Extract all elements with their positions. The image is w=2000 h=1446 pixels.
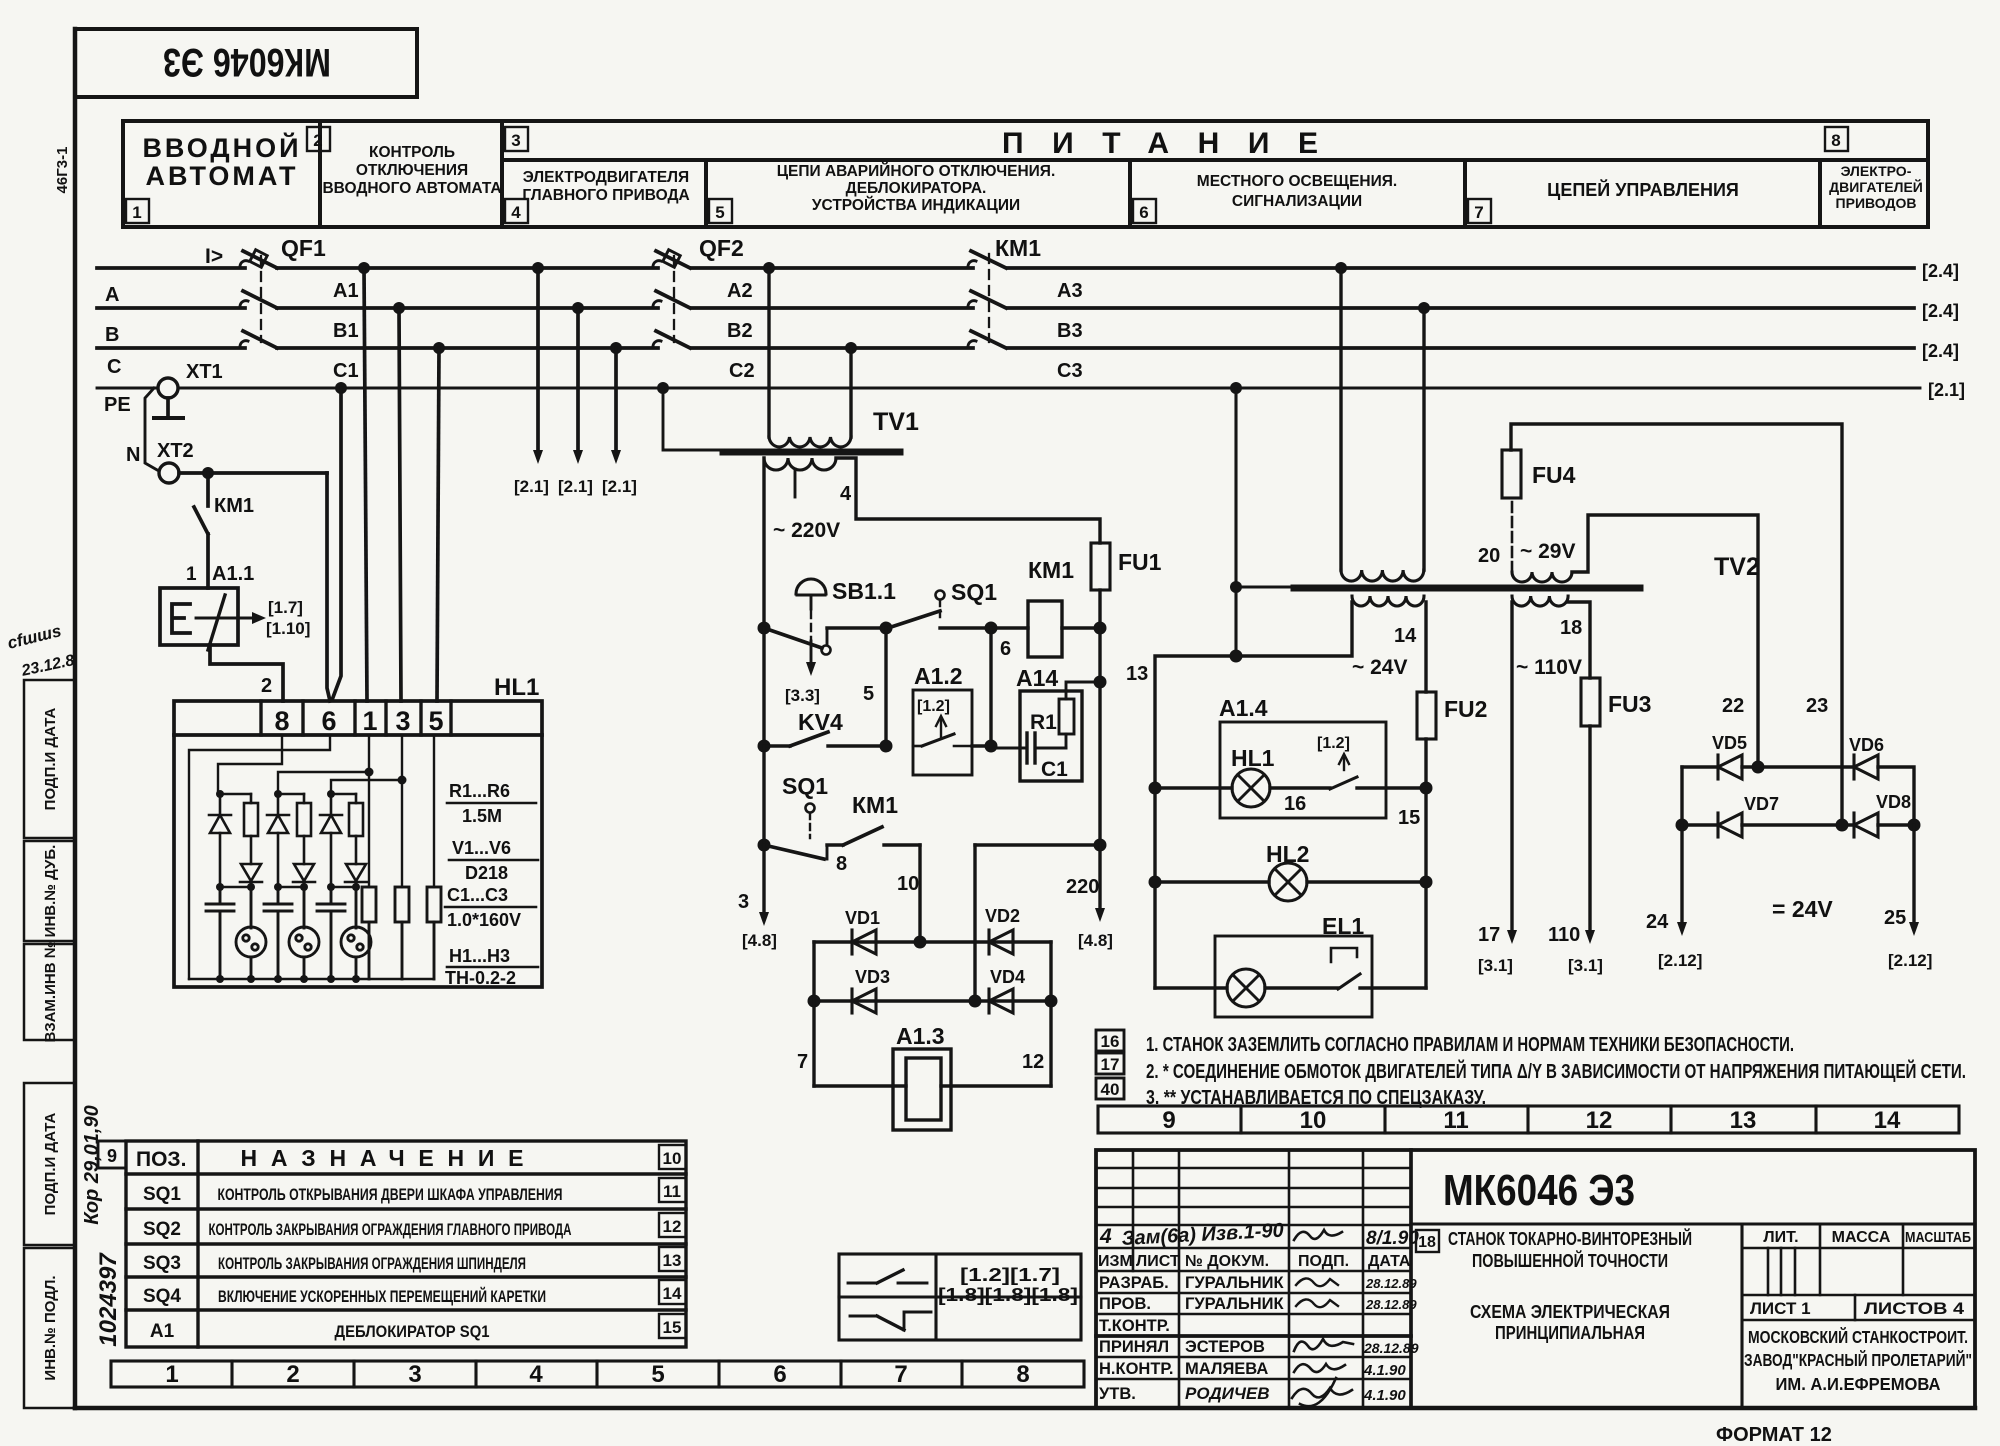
cell 3 ELEKTRODVIGATELYA GLAVNOGO PRIVODA bbox=[522, 169, 689, 204]
value label V1..V6 D218 bbox=[449, 838, 538, 883]
wire 110V right to FU3 bbox=[1568, 602, 1590, 678]
left margin box INV N DUB bbox=[24, 841, 75, 941]
svg-text:ПОДП.: ПОДП. bbox=[1298, 1253, 1349, 1270]
diode VD2 bbox=[985, 906, 1020, 954]
svg-text:HL1: HL1 bbox=[494, 674, 539, 701]
tap junction C2 to TV1 bbox=[845, 342, 857, 354]
svg-text:3: 3 bbox=[511, 131, 520, 150]
svg-text:24: 24 bbox=[1646, 911, 1669, 933]
svg-text:9: 9 bbox=[1162, 1107, 1175, 1134]
vertical rails between rows bbox=[764, 628, 1100, 845]
deblocker solenoid A1.3 bbox=[797, 1023, 1051, 1130]
wire A down arrow 2.1 bbox=[514, 268, 549, 496]
svg-text:4.1.90: 4.1.90 bbox=[1363, 1362, 1406, 1379]
svg-text:SQ4: SQ4 bbox=[143, 1286, 181, 1307]
svg-text:1. СТАНОК ЗАЗЕМЛИТЬ СОГЛАСНО: 1. СТАНОК ЗАЗЕМЛИТЬ СОГЛАСНО ПРАВИЛАМ И … bbox=[1146, 1034, 1794, 1056]
dc output label 24V bbox=[1772, 896, 1833, 922]
cell marker box 7 bbox=[1468, 199, 1491, 223]
control row node 3 bbox=[985, 622, 998, 635]
svg-text:7: 7 bbox=[1474, 203, 1483, 222]
row2 node 2 bbox=[880, 740, 893, 753]
handwritten inventory number 1024397 (vertical) bbox=[95, 1252, 122, 1347]
circuit breaker QF2 bbox=[653, 235, 744, 348]
wire 24V winding right to FU2 bbox=[1424, 602, 1427, 692]
tap junction A3 to TV2 bbox=[1335, 262, 1347, 274]
transformer TV2 primary winding bbox=[1341, 570, 1424, 581]
svg-text:14: 14 bbox=[1394, 625, 1417, 647]
fuse FU4 bbox=[1502, 450, 1576, 572]
svg-text:ДВИГАТЕЛЕЙ: ДВИГАТЕЛЕЙ bbox=[1829, 178, 1923, 195]
svg-text:KV4: KV4 bbox=[798, 709, 843, 735]
svg-text:SQ3: SQ3 bbox=[143, 1253, 181, 1274]
svg-text:8: 8 bbox=[274, 706, 289, 736]
tap junction A1 to HL1 bbox=[358, 262, 370, 274]
svg-text:A14: A14 bbox=[1016, 665, 1058, 691]
bridge row 2 wire bbox=[1676, 819, 1921, 832]
wire 22 from 29V winding to VD5 bbox=[1572, 515, 1758, 767]
factory name bbox=[1744, 1326, 1972, 1394]
wire 23 from FU4 to VD6 VD8 bbox=[1511, 424, 1842, 825]
diode VD3 bbox=[852, 967, 890, 1013]
capacitor C2 rect bbox=[395, 887, 409, 979]
left margin box PODP I DATA 2 bbox=[24, 1083, 75, 1245]
svg-text:ЭСТЕРОВ: ЭСТЕРОВ bbox=[1185, 1338, 1265, 1356]
output 24 arrow 2.12 bbox=[1646, 825, 1702, 970]
svg-text:18: 18 bbox=[1560, 617, 1582, 639]
svg-text:VD4: VD4 bbox=[990, 967, 1025, 987]
svg-text:4.1.90: 4.1.90 bbox=[1363, 1387, 1406, 1404]
node 15 bbox=[1149, 782, 1433, 830]
svg-text:Н.КОНТР.: Н.КОНТР. bbox=[1099, 1360, 1174, 1378]
sheet reference labels 1.7 / 1.10 bbox=[266, 598, 310, 638]
svg-text:ИНВ.№ ПОДЛ.: ИНВ.№ ПОДЛ. bbox=[42, 1275, 59, 1380]
svg-text:РАЗРАБ.: РАЗРАБ. bbox=[1099, 1274, 1169, 1292]
cell 5 TSEPI AVARIYNOGO bbox=[777, 162, 1056, 214]
diode VD8 bbox=[1854, 792, 1911, 837]
wire PE tap to terminal 6 bbox=[332, 388, 341, 700]
RC module A14 bbox=[991, 665, 1082, 781]
svg-text:[4.8]: [4.8] bbox=[742, 931, 777, 950]
svg-text:МОСКОВСКИЙ СТАНКОСТРОИТ.: МОСКОВСКИЙ СТАНКОСТРОИТ. bbox=[1748, 1326, 1968, 1347]
svg-text:C: C bbox=[107, 356, 121, 378]
svg-text:С1...С3: С1...С3 bbox=[447, 885, 508, 905]
contactor coil KM1 bbox=[991, 557, 1100, 657]
svg-text:6: 6 bbox=[1139, 203, 1148, 222]
title block center dividers bbox=[1411, 1224, 1975, 1408]
node FU1 wire at coil row bbox=[1094, 622, 1107, 635]
svg-text:ПОДП.И ДАТА: ПОДП.И ДАТА bbox=[42, 1113, 59, 1216]
svg-text:6: 6 bbox=[321, 706, 336, 736]
wire XT2 to HL1 terminal 6 bbox=[179, 473, 330, 701]
transformer TV1 primary winding bbox=[769, 437, 851, 447]
svg-text:13: 13 bbox=[1126, 663, 1148, 685]
cell marker box 3 bbox=[505, 127, 528, 151]
svg-text:46Г3-1: 46Г3-1 bbox=[54, 147, 71, 194]
svg-text:ЦЕПЕЙ УПРАВЛЕНИЯ: ЦЕПЕЙ УПРАВЛЕНИЯ bbox=[1547, 179, 1739, 200]
lit massa masshtab header bbox=[1742, 1224, 1975, 1295]
svg-text:ПОЗ.: ПОЗ. bbox=[136, 1148, 186, 1171]
svg-text:SQ2: SQ2 bbox=[143, 1219, 181, 1240]
diode V3 bbox=[267, 794, 289, 887]
row SQ1 bbox=[143, 1184, 563, 1205]
svg-text:FU1: FU1 bbox=[1118, 549, 1162, 575]
lamp unit 1 top node bbox=[216, 790, 251, 798]
svg-text:11: 11 bbox=[1443, 1107, 1468, 1134]
svg-text:A1: A1 bbox=[333, 280, 359, 302]
svg-text:= 24V: = 24V bbox=[1772, 896, 1833, 922]
svg-text:13: 13 bbox=[663, 1251, 682, 1270]
svg-text:10: 10 bbox=[897, 873, 919, 895]
svg-text:FU2: FU2 bbox=[1444, 696, 1487, 722]
bridge row 1 wire bbox=[1682, 761, 1914, 826]
tap junction C1 to HL1 bbox=[433, 342, 445, 354]
svg-text:SB1.1: SB1.1 bbox=[832, 578, 896, 604]
lighting unit EL1 box bbox=[1215, 913, 1372, 1017]
capacitor C1 rect bbox=[362, 887, 376, 979]
svg-text:ПРИВОДОВ: ПРИВОДОВ bbox=[1836, 195, 1917, 211]
svg-text:УТВ.: УТВ. bbox=[1099, 1385, 1136, 1403]
svg-text:2: 2 bbox=[261, 675, 272, 697]
row SQ2 bbox=[143, 1219, 572, 1240]
column scale strip 9-14 bbox=[1098, 1106, 1959, 1134]
legend NC contact symbol bbox=[850, 1312, 931, 1330]
wire PE to TV1 core bbox=[663, 388, 723, 450]
svg-text:№ ДОКУМ.: № ДОКУМ. bbox=[1185, 1253, 1269, 1270]
wire 2 from A1.1 to HL1 terminal 8 bbox=[210, 645, 283, 701]
row3 node SQ1 lower bbox=[758, 839, 771, 852]
svg-text:6: 6 bbox=[773, 1361, 786, 1388]
svg-text:VD1: VD1 bbox=[845, 908, 880, 928]
cell 7 TSEPEY UPRAVLENIYA bbox=[1547, 179, 1739, 200]
svg-text:11: 11 bbox=[663, 1182, 681, 1201]
svg-text:5: 5 bbox=[863, 683, 874, 705]
svg-text:ГУРАЛЬНИК: ГУРАЛЬНИК bbox=[1185, 1274, 1285, 1292]
svg-text:16: 16 bbox=[1101, 1032, 1120, 1051]
transformer TV1 secondary winding bbox=[764, 458, 836, 470]
svg-text:TV1: TV1 bbox=[873, 408, 919, 436]
lamp unit 2 top node bbox=[274, 790, 304, 798]
lamp HL1 in A1.4 bbox=[1231, 745, 1275, 807]
svg-text:ДЕБЛОКИРАТОРА.: ДЕБЛОКИРАТОРА. bbox=[846, 180, 987, 197]
svg-text:QF1: QF1 bbox=[281, 235, 326, 261]
svg-text:СХЕМА ЭЛЕКТРИЧЕСКАЯ: СХЕМА ЭЛЕКТРИЧЕСКАЯ bbox=[1470, 1302, 1670, 1322]
svg-text:23: 23 bbox=[1806, 695, 1828, 717]
cell marker box 4 bbox=[505, 199, 528, 223]
svg-text:6: 6 bbox=[1000, 638, 1011, 660]
svg-text:17: 17 bbox=[1478, 924, 1500, 946]
fuse FU3 bbox=[1581, 678, 1651, 726]
unit 1 mid node bbox=[216, 883, 255, 891]
tap junction A2 to TV1 bbox=[763, 262, 775, 274]
sheet ref 3.3 under SB1.1 bbox=[785, 686, 820, 705]
svg-text:[4.8]: [4.8] bbox=[1078, 931, 1113, 950]
svg-text:V1...V6: V1...V6 bbox=[452, 838, 511, 858]
svg-text:МК6046 Э3: МК6046 Э3 bbox=[1443, 1166, 1635, 1215]
deblocking module A1.2 bbox=[913, 663, 972, 775]
svg-text:[2.1]: [2.1] bbox=[1928, 380, 1965, 400]
svg-text:EL1: EL1 bbox=[1322, 913, 1364, 939]
svg-text:ДЕБЛОКИРАТОР SQ1: ДЕБЛОКИРАТОР SQ1 bbox=[335, 1322, 490, 1341]
diode VD5 bbox=[1712, 733, 1747, 779]
phase B bus line bbox=[97, 306, 1914, 310]
wire A1.2 to A14 bbox=[972, 744, 991, 747]
svg-text:~ 110V: ~ 110V bbox=[1516, 656, 1582, 679]
svg-text:R1...R6: R1...R6 bbox=[449, 781, 510, 801]
internal wire terminal 8 to unit 1 bbox=[218, 735, 282, 794]
unit 2 mid node bbox=[274, 883, 308, 891]
wire KM1 aux down to VD1 row bbox=[897, 845, 920, 942]
svg-text:КМ1: КМ1 bbox=[214, 495, 254, 517]
node PE drop at 656 bbox=[1230, 650, 1243, 663]
line marker box 16 bbox=[1096, 1030, 1124, 1051]
node R1 top to FU1 wire bbox=[1094, 676, 1107, 689]
svg-text:1.0*160V: 1.0*160V bbox=[447, 910, 521, 930]
svg-text:7: 7 bbox=[894, 1361, 907, 1388]
svg-text:ВЗАМ.ИНВ №: ВЗАМ.ИНВ № bbox=[42, 942, 59, 1043]
node PE at core bbox=[1230, 581, 1242, 593]
PITANIE title bbox=[1002, 127, 1318, 160]
svg-text:ПРИНЦИПИАЛЬНАЯ: ПРИНЦИПИАЛЬНАЯ bbox=[1495, 1323, 1645, 1343]
svg-text:VD7: VD7 bbox=[1744, 794, 1779, 814]
list / listov row bbox=[1742, 1295, 1975, 1320]
svg-text:15: 15 bbox=[663, 1318, 682, 1337]
note 1 bbox=[1146, 1034, 1794, 1056]
svg-text:1: 1 bbox=[362, 706, 377, 736]
wire SB1.1 to SQ1 bbox=[827, 626, 886, 629]
svg-text:C2: C2 bbox=[729, 360, 755, 382]
row2 node KV4 left bbox=[758, 740, 771, 753]
position table marker box 9 bbox=[98, 1141, 126, 1168]
doc number MK6046 E3 bbox=[1443, 1166, 1635, 1215]
indication module A1.4 bbox=[1219, 695, 1386, 818]
diode bridge row 2 wire bbox=[808, 995, 1058, 1008]
svg-text:1: 1 bbox=[165, 1361, 178, 1388]
cell 2 KONTROL OTKLYUCHENIYA bbox=[322, 144, 501, 197]
svg-text:ОТКЛЮЧЕНИЯ: ОТКЛЮЧЕНИЯ bbox=[356, 162, 468, 179]
svg-text:Кор 29,01,90: Кор 29,01,90 bbox=[81, 1105, 103, 1224]
wire 220 branch to VD3 row bbox=[975, 845, 1100, 1001]
neon lamp H3 bbox=[341, 887, 371, 983]
HL2 row wire bbox=[1149, 876, 1433, 889]
svg-text:20: 20 bbox=[1478, 545, 1500, 567]
row utv bbox=[1099, 1378, 1406, 1406]
node 220 wire bbox=[1094, 839, 1107, 852]
svg-text:XT2: XT2 bbox=[157, 440, 194, 462]
svg-text:3: 3 bbox=[408, 1361, 421, 1388]
svg-text:15: 15 bbox=[1398, 807, 1420, 829]
format label bbox=[1716, 1424, 1832, 1446]
wire TV1 secondary right to FU1 bbox=[836, 458, 1100, 543]
diode VD7 bbox=[1718, 794, 1779, 837]
svg-text:2: 2 bbox=[313, 131, 322, 150]
cell marker box 6 bbox=[1133, 199, 1156, 223]
sheet scale strip 1-8 bbox=[111, 1361, 1084, 1388]
capacitor under unit 1 bbox=[206, 887, 234, 983]
svg-text:КМ1: КМ1 bbox=[852, 792, 898, 818]
svg-text:28.12.89: 28.12.89 bbox=[1365, 1276, 1417, 1291]
svg-text:VD5: VD5 bbox=[1712, 733, 1747, 753]
svg-text:FU3: FU3 bbox=[1608, 691, 1651, 717]
function header table outer bbox=[123, 121, 1928, 227]
svg-text:D218: D218 bbox=[465, 863, 508, 883]
svg-text:10: 10 bbox=[663, 1149, 682, 1168]
fuse FU2 bbox=[1417, 692, 1487, 988]
position table POZ/NAZNACHENIE bbox=[126, 1141, 686, 1347]
svg-text:ВВОДНОГО АВТОМАТА: ВВОДНОГО АВТОМАТА bbox=[322, 180, 501, 197]
svg-text:SQ1: SQ1 bbox=[951, 579, 997, 605]
svg-text:B2: B2 bbox=[727, 320, 753, 342]
internal wire terminal 6 to left rail bbox=[189, 735, 330, 979]
svg-text:N: N bbox=[126, 444, 140, 466]
svg-text:Т.КОНТР.: Т.КОНТР. bbox=[1099, 1317, 1170, 1335]
svg-text:ЭЛЕКТРО-: ЭЛЕКТРО- bbox=[1841, 163, 1912, 179]
svg-text:[2.12]: [2.12] bbox=[1888, 951, 1932, 970]
svg-text:28.12.89: 28.12.89 bbox=[1363, 1340, 1419, 1356]
contactor KM1 auxiliary contact (top-left) bbox=[194, 473, 254, 588]
PE to N jumper wire bbox=[145, 388, 159, 471]
resistor R1 bbox=[244, 794, 258, 864]
svg-text:КОНТРОЛЬ ОТКРЫВАНИЯ ДВЕРИ ШКАФ: КОНТРОЛЬ ОТКРЫВАНИЯ ДВЕРИ ШКАФА УПРАВЛЕН… bbox=[218, 1185, 563, 1204]
diode VD4 bbox=[989, 967, 1025, 1013]
svg-text:5: 5 bbox=[428, 706, 443, 736]
svg-text:[1.10]: [1.10] bbox=[266, 619, 310, 638]
diode VD6 bbox=[1849, 735, 1884, 779]
svg-text:[2.4]: [2.4] bbox=[1922, 261, 1959, 281]
svg-text:16: 16 bbox=[1284, 793, 1306, 815]
output 25 arrow 2.12 bbox=[1884, 825, 1932, 970]
svg-text:[2.1]: [2.1] bbox=[602, 477, 637, 496]
svg-text:1.5М: 1.5М bbox=[462, 806, 502, 826]
svg-text:40: 40 bbox=[1101, 1080, 1120, 1099]
svg-text:~ 220V: ~ 220V bbox=[773, 519, 840, 542]
svg-text:5: 5 bbox=[715, 203, 724, 222]
cell marker box 1 bbox=[126, 199, 149, 223]
svg-text:МК6046 Э3: МК6046 Э3 bbox=[163, 40, 331, 84]
svg-text:A1.1: A1.1 bbox=[212, 563, 254, 585]
terminal strip cells 8 6 1 3 5 bbox=[261, 701, 451, 736]
svg-text:~ 24V: ~ 24V bbox=[1352, 656, 1407, 679]
svg-text:9: 9 bbox=[107, 1146, 117, 1166]
diode V1 bbox=[209, 794, 231, 887]
wire 3 down arrow 4.8 bbox=[738, 845, 777, 950]
svg-text:17: 17 bbox=[1101, 1055, 1120, 1074]
lamp EL1 bbox=[1227, 969, 1265, 1007]
svg-text:PE: PE bbox=[104, 394, 131, 416]
circuit breaker QF1 bbox=[205, 235, 326, 348]
value label C1..C3 1.0x160V bbox=[445, 885, 536, 930]
svg-text:C1: C1 bbox=[333, 360, 359, 382]
tap junction C to sheet 2.1 bbox=[610, 342, 622, 354]
svg-text:7: 7 bbox=[797, 1051, 808, 1073]
diode V5 bbox=[320, 794, 342, 887]
svg-text:ПОВЫШЕННОЙ ТОЧНОСТИ: ПОВЫШЕННОЙ ТОЧНОСТИ bbox=[1472, 1250, 1668, 1271]
svg-text:B3: B3 bbox=[1057, 320, 1083, 342]
cell 8 ELEKTRODVIGATELEY PRIVODOV bbox=[1829, 163, 1923, 211]
svg-text:ЗАВОД"КРАСНЫЙ ПРОЛЕТАРИЙ": ЗАВОД"КРАСНЫЙ ПРОЛЕТАРИЙ" bbox=[1744, 1349, 1972, 1370]
tap junction B1 to HL1 bbox=[393, 302, 405, 314]
marker box 18 bbox=[1416, 1230, 1439, 1252]
fuse FU1 bbox=[1091, 543, 1162, 628]
note 3 bbox=[1146, 1087, 1486, 1109]
cell marker box 8 bbox=[1825, 127, 1848, 151]
phase C bus line bbox=[97, 346, 1914, 350]
PE tap junction to TV1 core bbox=[657, 382, 669, 394]
svg-text:12: 12 bbox=[1586, 1107, 1613, 1134]
svg-text:12: 12 bbox=[663, 1217, 682, 1236]
svg-text:УСТРОЙСТВА ИНДИКАЦИИ: УСТРОЙСТВА ИНДИКАЦИИ bbox=[812, 196, 1020, 214]
svg-text:СИГНАЛИЗАЦИИ: СИГНАЛИЗАЦИИ bbox=[1232, 193, 1362, 210]
diode V6 bbox=[345, 864, 367, 887]
wire number 5 bbox=[863, 683, 874, 705]
legend box with contact symbols bbox=[839, 1254, 1081, 1340]
handwritten note Kor 29.01.90 (vertical) bbox=[81, 1105, 103, 1224]
internal wire terminal 1 to unit 2 bbox=[278, 768, 374, 795]
svg-text:КОНТРОЛЬ ЗАКРЫВАНИЯ ОГРАЖДЕНИЯ: КОНТРОЛЬ ЗАКРЫВАНИЯ ОГРАЖДЕНИЯ ШПИНДЕЛЯ bbox=[218, 1254, 526, 1273]
svg-text:23.12.8: 23.12.8 bbox=[19, 652, 76, 680]
svg-text:[2.4]: [2.4] bbox=[1922, 341, 1959, 361]
diode bridge row 1 wire bbox=[814, 936, 1051, 949]
svg-text:МАСШТАБ: МАСШТАБ bbox=[1905, 1229, 1971, 1246]
svg-text:TV2: TV2 bbox=[1714, 553, 1760, 581]
svg-text:ПРИНЯЛ: ПРИНЯЛ bbox=[1099, 1338, 1169, 1356]
svg-text:КОНТРОЛЬ: КОНТРОЛЬ bbox=[369, 144, 455, 161]
svg-text:SQ1: SQ1 bbox=[782, 773, 828, 799]
transformer TV2 winding 110V pin 18 bbox=[1512, 596, 1582, 679]
svg-text:Н1...Н3: Н1...Н3 bbox=[449, 946, 510, 966]
svg-text:[3.1]: [3.1] bbox=[1478, 956, 1513, 975]
wire number 6 bbox=[1000, 638, 1011, 660]
capacitor under unit 2 bbox=[264, 887, 292, 983]
left margin box PODP I DATA bbox=[24, 680, 75, 838]
svg-text:ИМ. А.И.ЕФРЕМОВА: ИМ. А.И.ЕФРЕМОВА bbox=[1776, 1374, 1941, 1394]
row razrab bbox=[1099, 1274, 1417, 1292]
svg-text:13: 13 bbox=[1730, 1107, 1757, 1134]
svg-text:ЛИСТ: ЛИСТ bbox=[1136, 1253, 1180, 1270]
svg-text:3: 3 bbox=[395, 706, 410, 736]
svg-text:РОДИЧЕВ: РОДИЧЕВ bbox=[1185, 1384, 1270, 1403]
relay contact KV4 bbox=[764, 709, 886, 746]
resistor R5 bbox=[349, 794, 363, 864]
capacitor under unit 3 bbox=[317, 887, 345, 983]
svg-text:[3.3]: [3.3] bbox=[785, 686, 820, 705]
svg-text:XT1: XT1 bbox=[186, 361, 223, 383]
phase labels A B C PE N bbox=[104, 284, 140, 466]
wire labels A1 B1 C1 bbox=[333, 280, 359, 382]
svg-text:ИНВ.№ ДУБ.: ИНВ.№ ДУБ. bbox=[42, 845, 59, 938]
line marker box 40 bbox=[1096, 1078, 1124, 1099]
legend refs 1.2 1.7 1.8 bbox=[938, 1265, 1078, 1305]
junction XT2 node bbox=[202, 467, 214, 479]
contactor KM1 auxiliary contact 8 bbox=[836, 792, 920, 875]
guard switch SQ1 lower bbox=[764, 773, 843, 859]
A1.4 row wire 16 bbox=[1155, 788, 1330, 815]
wire C1 tap down to terminal 5 bbox=[437, 348, 439, 701]
wire B1 tap down to terminal 3 bbox=[399, 308, 401, 701]
undervoltage release A1.1 bbox=[160, 563, 266, 650]
lamp unit 3 top node bbox=[327, 790, 356, 798]
row A1 bbox=[150, 1321, 490, 1342]
row SQ4 bbox=[143, 1286, 546, 1307]
svg-text:220: 220 bbox=[1066, 876, 1099, 898]
svg-text:8/1.90: 8/1.90 bbox=[1366, 1228, 1419, 1249]
svg-text:[2.4]: [2.4] bbox=[1922, 301, 1959, 321]
machine name bbox=[1448, 1228, 1692, 1343]
svg-text:VD8: VD8 bbox=[1876, 792, 1911, 812]
svg-text:[2.1]: [2.1] bbox=[558, 477, 593, 496]
svg-text:A1.3: A1.3 bbox=[896, 1023, 945, 1049]
title block left grid bbox=[1096, 1150, 1411, 1408]
svg-text:ЛИСТОВ 4: ЛИСТОВ 4 bbox=[1864, 1299, 1965, 1318]
